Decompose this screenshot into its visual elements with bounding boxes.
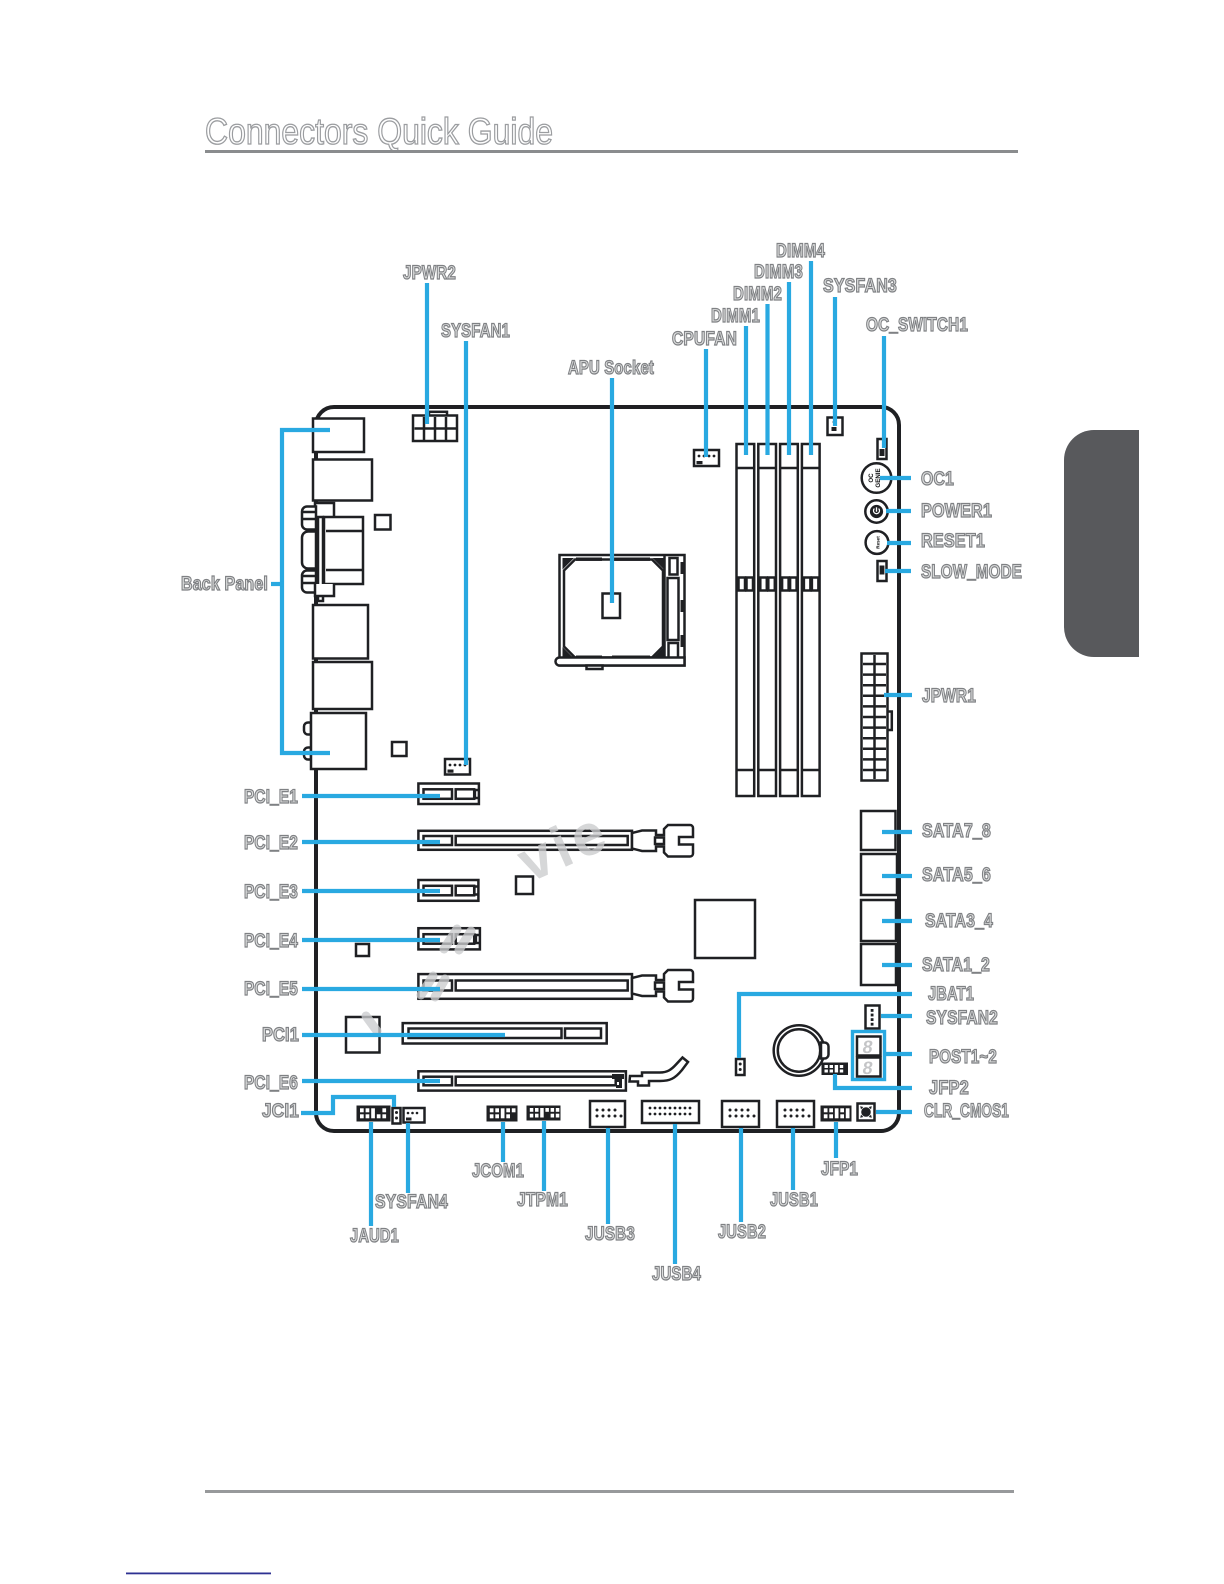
- svg-text:POST1~2: POST1~2: [929, 1047, 997, 1068]
- leader SATA3_4: [882, 919, 912, 923]
- jumper JCI1: [393, 1108, 401, 1124]
- button POWER1: [865, 500, 887, 522]
- watermark stroke fragment over PCI_E4: [366, 929, 471, 1031]
- svg-text:SATA1_2: SATA1_2: [922, 955, 990, 976]
- back panel VGA D-shell: [302, 532, 316, 569]
- svg-text:DIMM2: DIMM2: [733, 284, 782, 305]
- svg-text:JAUD1: JAUD1: [350, 1226, 399, 1247]
- back panel connector PS/2: [313, 419, 364, 453]
- leader CPUFAN: [704, 349, 708, 457]
- chipset: [695, 900, 755, 958]
- svg-text:OC_SWITCH1: OC_SWITCH1: [866, 315, 968, 336]
- leader DIMM1: [744, 326, 748, 455]
- leader SYSFAN4: [406, 1123, 410, 1193]
- header JFP1: [821, 1106, 852, 1122]
- leader JPWR2: [425, 283, 429, 424]
- slot PCI_E4: [418, 928, 480, 949]
- button CLR_CMOS1: [858, 1104, 875, 1121]
- connector SATA1_2: [861, 944, 896, 985]
- svg-text:CPUFAN: CPUFAN: [672, 329, 737, 350]
- leader JUSB4: [673, 1124, 677, 1264]
- connector SYSFAN3: [828, 418, 843, 436]
- leader POST1~2: [886, 1052, 912, 1056]
- latch lever PCI_E6: [630, 1058, 689, 1086]
- svg-text:SATA7_8: SATA7_8: [922, 821, 991, 842]
- svg-text:OC: OC: [868, 473, 875, 483]
- connector SYSFAN4: [404, 1108, 425, 1123]
- leader PCI_E6: [302, 1079, 440, 1083]
- leader PCI_E2: [302, 840, 440, 844]
- svg-text:SATA3_4: SATA3_4: [925, 911, 993, 932]
- svg-text:JTPM1: JTPM1: [517, 1190, 568, 1211]
- header JUSB1: [777, 1101, 814, 1127]
- back panel connector USB top: [313, 460, 372, 501]
- leader PCI_E3: [302, 889, 440, 893]
- svg-text:JUSB3: JUSB3: [585, 1224, 635, 1245]
- svg-text:POWER1: POWER1: [921, 501, 992, 522]
- back panel audio jack bump 2: [304, 748, 311, 760]
- header JFP2: [822, 1063, 849, 1076]
- svg-text:JUSB1: JUSB1: [770, 1190, 818, 1211]
- socket center key: [603, 594, 621, 619]
- slot PCI_E6: [418, 1071, 626, 1090]
- leader PCI1: [302, 1033, 505, 1037]
- svg-text:PCI_E3: PCI_E3: [244, 882, 298, 903]
- svg-text:Back Panel: Back Panel: [181, 574, 268, 595]
- svg-text:PCI_E2: PCI_E2: [244, 833, 298, 854]
- svg-text:DIMM3: DIMM3: [754, 262, 803, 283]
- leader JCI1: [301, 1097, 394, 1113]
- leader SLOW_MODE: [885, 569, 911, 573]
- latch PCI_E2: [632, 825, 693, 857]
- svg-text:APU Socket: APU Socket: [568, 358, 654, 379]
- switch OC_SWITCH1: [878, 439, 887, 459]
- svg-text:JCI1: JCI1: [262, 1101, 299, 1122]
- svg-text:CLR_CMOS1: CLR_CMOS1: [924, 1101, 1009, 1122]
- DIMM slot 3: [780, 444, 798, 796]
- POST1~2 debug LEDs: [853, 1032, 885, 1080]
- leader JUSB3: [606, 1128, 610, 1224]
- small square lower-left: [392, 742, 407, 756]
- bottom rule: [205, 1490, 1014, 1493]
- leader DIMM4: [809, 261, 813, 455]
- leader OC_SWITCH1: [882, 336, 886, 448]
- latch PCI_E5: [632, 970, 693, 1002]
- svg-text:SYSFAN1: SYSFAN1: [441, 321, 510, 342]
- svg-text:RESET1: RESET1: [921, 531, 985, 552]
- leader CLR_CMOS1: [876, 1110, 912, 1114]
- back panel VGA step bottom: [315, 584, 334, 596]
- back panel VGA body: [318, 517, 323, 601]
- svg-text:JFP2: JFP2: [929, 1078, 969, 1099]
- connector SATA7_8: [861, 811, 896, 850]
- svg-text:JUSB4: JUSB4: [652, 1264, 701, 1285]
- slot PCI_E3: [418, 880, 478, 901]
- connector SYSFAN1: [445, 759, 470, 775]
- leader POWER1: [886, 509, 911, 513]
- header JTPM1: [527, 1106, 561, 1121]
- leader RESET1: [887, 541, 911, 545]
- svg-text:PCI_E1: PCI_E1: [244, 787, 298, 808]
- svg-text:JBAT1: JBAT1: [928, 984, 974, 1005]
- svg-text:JPWR2: JPWR2: [403, 263, 456, 284]
- slot PCI1: [403, 1023, 607, 1043]
- svg-text:SATA5_6: SATA5_6: [922, 865, 991, 886]
- leader Back Panel bracket: [282, 430, 330, 753]
- connector JPWR2: [413, 416, 457, 442]
- small square near PCI_E3: [516, 877, 533, 895]
- svg-text:JFP1: JFP1: [821, 1159, 858, 1180]
- slot PCI_E1: [418, 784, 479, 805]
- slot PCI_E2: [418, 831, 632, 850]
- button OC1: [862, 463, 892, 493]
- svg-text:Reset: Reset: [876, 536, 881, 549]
- watermark stroke fragment over PCI1 chip: [366, 1016, 377, 1031]
- connector SATA5_6: [861, 854, 897, 895]
- svg-text:PCI_E5: PCI_E5: [244, 979, 298, 1000]
- leader SYSFAN1: [464, 341, 468, 765]
- jumper SLOW_MODE: [878, 561, 887, 581]
- connector SATA3_4: [861, 900, 896, 941]
- leader JFP2: [835, 1074, 912, 1088]
- back panel connector LAN: [313, 605, 368, 659]
- socket right lever rail: [663, 556, 666, 664]
- svg-text:JCOM1: JCOM1: [472, 1161, 524, 1182]
- watermark stroke fragment over PCI_E5: [421, 976, 433, 995]
- chapter tab: [1064, 430, 1139, 657]
- leader JCOM1: [501, 1122, 505, 1162]
- svg-text:JPWR1: JPWR1: [922, 686, 976, 707]
- svg-text:PCI1: PCI1: [262, 1025, 299, 1046]
- leader OC1: [880, 476, 911, 480]
- bottom-left navy line: [126, 1573, 271, 1575]
- leader JFP1: [834, 1122, 838, 1158]
- header JUSB4: [642, 1101, 699, 1123]
- header JUSB3: [590, 1101, 625, 1127]
- svg-text:SYSFAN4: SYSFAN4: [375, 1192, 448, 1213]
- svg-text:DIMM1: DIMM1: [711, 306, 760, 327]
- connector CPUFAN: [694, 450, 719, 466]
- svg-text:PCI_E6: PCI_E6: [244, 1073, 298, 1094]
- leader JUSB2: [739, 1128, 743, 1222]
- svg-text:PCI_E4: PCI_E4: [244, 931, 298, 952]
- small square under back panel: [375, 515, 391, 530]
- svg-text:SLOW_MODE: SLOW_MODE: [921, 562, 1022, 583]
- back panel VGA nut bottom: [302, 571, 316, 593]
- jumper JBAT1: [736, 1059, 745, 1075]
- header JUSB2: [722, 1101, 759, 1127]
- svg-text:DIMM4: DIMM4: [776, 241, 825, 262]
- APU socket: [556, 555, 685, 669]
- leader JBAT1: [739, 994, 912, 1058]
- leader SATA7_8: [882, 830, 912, 834]
- leader SYSFAN3: [833, 297, 837, 426]
- svg-text:SYSFAN3: SYSFAN3: [823, 276, 897, 297]
- back panel audio block: [311, 713, 366, 769]
- small square near PCI_E4: [356, 944, 369, 956]
- svg-text:OC1: OC1: [921, 469, 954, 490]
- leader SATA1_2: [882, 963, 912, 967]
- connector JPWR2 tab: [429, 412, 447, 417]
- leader APU Socket: [610, 378, 614, 603]
- leader SATA5_6: [882, 874, 912, 878]
- leader DIMM3: [787, 282, 791, 455]
- header JAUD1: [357, 1106, 391, 1122]
- board outline: [316, 407, 899, 1131]
- svg-text:SYSFAN2: SYSFAN2: [926, 1008, 998, 1029]
- slot PCI_E5: [418, 974, 632, 999]
- watermark (painted later, see #watermark group): [302, 412, 897, 1127]
- battery: [774, 1025, 829, 1076]
- button RESET1: [866, 531, 889, 554]
- connector JPWR1: [862, 654, 892, 781]
- connector SYSFAN2: [866, 1006, 880, 1029]
- svg-text:JUSB2: JUSB2: [718, 1222, 766, 1243]
- socket lever bar: [556, 658, 685, 666]
- leader DIMM2: [765, 304, 769, 455]
- DIMM slot 4: [802, 444, 820, 796]
- leader PCI_E1: [302, 794, 440, 798]
- header JCOM1: [487, 1106, 518, 1122]
- leader SYSFAN2: [881, 1014, 912, 1018]
- back panel connector USB bottom: [313, 662, 372, 709]
- chip near PCI1: [346, 1017, 380, 1053]
- back panel audio jack bump 1: [304, 723, 311, 735]
- leader JAUD1: [369, 1122, 373, 1226]
- top rule: [205, 150, 1018, 153]
- svg-text:Connectors Quick Guide: Connectors Quick Guide: [205, 111, 553, 152]
- back panel VGA nut top: [302, 507, 316, 530]
- leader PCI_E5: [302, 987, 440, 991]
- leader JTPM1: [542, 1121, 546, 1191]
- back panel VGA step top: [315, 503, 334, 516]
- DIMM slot 2: [758, 444, 776, 796]
- leader JUSB1: [791, 1128, 795, 1190]
- leader JPWR1: [884, 693, 912, 697]
- DIMM slot 1: [737, 444, 755, 796]
- leader PCI_E4: [302, 938, 440, 942]
